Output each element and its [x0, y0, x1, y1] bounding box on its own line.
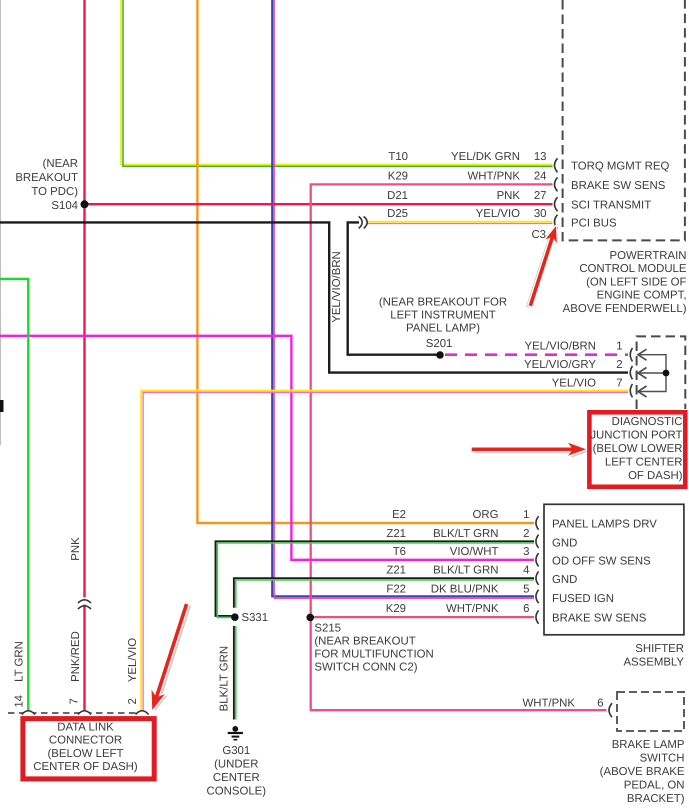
svg-text:7: 7 [69, 698, 81, 704]
svg-text:2: 2 [616, 359, 622, 371]
svg-text:ASSEMBLY: ASSEMBLY [623, 657, 684, 669]
svg-text:DK BLU/PNK: DK BLU/PNK [431, 583, 499, 595]
svg-text:D25: D25 [387, 208, 408, 220]
svg-text:GND: GND [552, 574, 577, 586]
svg-text:OD OFF SW SENS: OD OFF SW SENS [552, 555, 651, 567]
svg-text:3: 3 [523, 546, 529, 558]
svg-text:YEL/VIO/BRN: YEL/VIO/BRN [331, 251, 343, 323]
svg-text:BLK/LT GRN: BLK/LT GRN [433, 565, 498, 577]
svg-text:PNK: PNK [70, 537, 82, 561]
svg-text:PEDAL, ON: PEDAL, ON [624, 780, 685, 792]
svg-text:BRAKE LAMP: BRAKE LAMP [612, 739, 685, 751]
svg-text:(ON LEFT SIDE OF: (ON LEFT SIDE OF [586, 276, 686, 288]
svg-text:Z21: Z21 [386, 565, 406, 577]
svg-text:6: 6 [597, 697, 603, 709]
svg-text:BRAKE SW SENS: BRAKE SW SENS [571, 180, 666, 192]
svg-text:(ABOVE BRAKE: (ABOVE BRAKE [600, 766, 685, 778]
svg-text:FUSED IGN: FUSED IGN [552, 593, 614, 605]
svg-text:S331: S331 [242, 612, 269, 624]
svg-text:(BELOW LEFT: (BELOW LEFT [48, 748, 124, 760]
svg-text:(NEAR BREAKOUT FOR: (NEAR BREAKOUT FOR [379, 297, 507, 309]
svg-text:BRAKE SW SENS: BRAKE SW SENS [552, 613, 647, 625]
svg-text:7: 7 [616, 377, 622, 389]
svg-text:OF DASH): OF DASH) [628, 470, 683, 482]
svg-text:WHT/PNK: WHT/PNK [446, 603, 499, 615]
svg-text:LEFT INSTRUMENT: LEFT INSTRUMENT [390, 310, 496, 322]
svg-text:1: 1 [616, 341, 622, 353]
svg-text:2: 2 [127, 698, 139, 704]
svg-text:SWITCH CONN C2): SWITCH CONN C2) [314, 662, 417, 674]
svg-text:LEFT CENTER: LEFT CENTER [605, 457, 683, 469]
svg-text:ENGINE COMPT,: ENGINE COMPT, [597, 290, 687, 302]
svg-text:4: 4 [523, 565, 529, 577]
svg-text:ABOVE FENDERWELL): ABOVE FENDERWELL) [563, 303, 687, 315]
svg-text:F22: F22 [386, 583, 406, 595]
svg-text:POWERTRAIN: POWERTRAIN [610, 250, 687, 262]
svg-text:G301: G301 [222, 745, 250, 757]
svg-text:BLK/LT GRN: BLK/LT GRN [433, 528, 498, 540]
svg-text:DIAGNOSTIC: DIAGNOSTIC [612, 416, 683, 428]
svg-text:YEL/VIO/GRY: YEL/VIO/GRY [524, 359, 596, 371]
svg-text:PNK/RED: PNK/RED [70, 631, 82, 682]
svg-text:YEL/VIO: YEL/VIO [476, 208, 520, 220]
svg-text:30: 30 [534, 208, 547, 220]
svg-text:BRACKET): BRACKET) [627, 793, 685, 805]
svg-text:T10: T10 [388, 151, 408, 163]
svg-text:K29: K29 [388, 171, 408, 183]
svg-text:(BELOW LOWER: (BELOW LOWER [593, 443, 683, 455]
svg-text:YEL/VIO/BRN: YEL/VIO/BRN [524, 341, 596, 353]
svg-text:C3: C3 [531, 229, 546, 241]
svg-text:FOR MULTIFUNCTION: FOR MULTIFUNCTION [314, 649, 433, 661]
svg-text:WHT/PNK: WHT/PNK [467, 171, 520, 183]
svg-text:CONNECTOR: CONNECTOR [49, 735, 122, 747]
svg-text:LT GRN: LT GRN [14, 641, 26, 682]
svg-text:CENTER: CENTER [213, 772, 260, 784]
svg-text:(NEAR BREAKOUT: (NEAR BREAKOUT [314, 635, 415, 647]
svg-text:TORQ MGMT REQ: TORQ MGMT REQ [571, 161, 669, 173]
svg-text:SHIFTER: SHIFTER [635, 643, 684, 655]
svg-text:6: 6 [523, 603, 529, 615]
svg-text:5: 5 [523, 583, 529, 595]
svg-text:TO PDC): TO PDC) [31, 186, 78, 198]
svg-text:PNK: PNK [497, 190, 521, 202]
svg-text:E2: E2 [392, 509, 406, 521]
svg-text:BREAKOUT: BREAKOUT [15, 172, 78, 184]
svg-text:2: 2 [523, 528, 529, 540]
svg-text:27: 27 [534, 190, 547, 202]
svg-text:T6: T6 [393, 546, 406, 558]
svg-text:SWITCH: SWITCH [640, 753, 685, 765]
svg-text:D21: D21 [387, 190, 408, 202]
svg-text:CONSOLE): CONSOLE) [207, 785, 267, 797]
svg-text:14: 14 [14, 695, 26, 708]
svg-text:S201: S201 [426, 338, 453, 350]
svg-text:GND: GND [552, 537, 577, 549]
svg-text:PANEL LAMPS DRV: PANEL LAMPS DRV [552, 519, 657, 531]
svg-text:SCI TRANSMIT: SCI TRANSMIT [571, 199, 651, 211]
svg-text:YEL/VIO: YEL/VIO [127, 638, 139, 682]
svg-text:1: 1 [523, 509, 529, 521]
svg-text:(UNDER: (UNDER [214, 758, 258, 770]
svg-text:PCI BUS: PCI BUS [571, 217, 617, 229]
svg-text:JUNCTION PORT: JUNCTION PORT [590, 430, 682, 442]
svg-text:YEL/DK GRN: YEL/DK GRN [451, 151, 520, 163]
svg-text:VIO/WHT: VIO/WHT [450, 546, 499, 558]
svg-text:CENTER OF DASH): CENTER OF DASH) [33, 761, 138, 773]
svg-text:PANEL LAMP): PANEL LAMP) [406, 323, 480, 335]
svg-text:13: 13 [534, 151, 547, 163]
svg-text:CONTROL MODULE: CONTROL MODULE [579, 263, 687, 275]
svg-text:K29: K29 [386, 603, 406, 615]
svg-text:24: 24 [534, 171, 547, 183]
svg-text:S215: S215 [314, 622, 341, 634]
svg-text:YEL/VIO: YEL/VIO [552, 377, 596, 389]
svg-text:(NEAR: (NEAR [43, 158, 78, 170]
svg-text:Z21: Z21 [386, 528, 406, 540]
svg-text:S104: S104 [51, 200, 78, 212]
svg-text:BLK/LT GRN: BLK/LT GRN [219, 646, 231, 711]
svg-text:ORG: ORG [473, 509, 499, 521]
svg-text:DATA LINK: DATA LINK [57, 722, 114, 734]
svg-text:WHT/PNK: WHT/PNK [522, 697, 575, 709]
